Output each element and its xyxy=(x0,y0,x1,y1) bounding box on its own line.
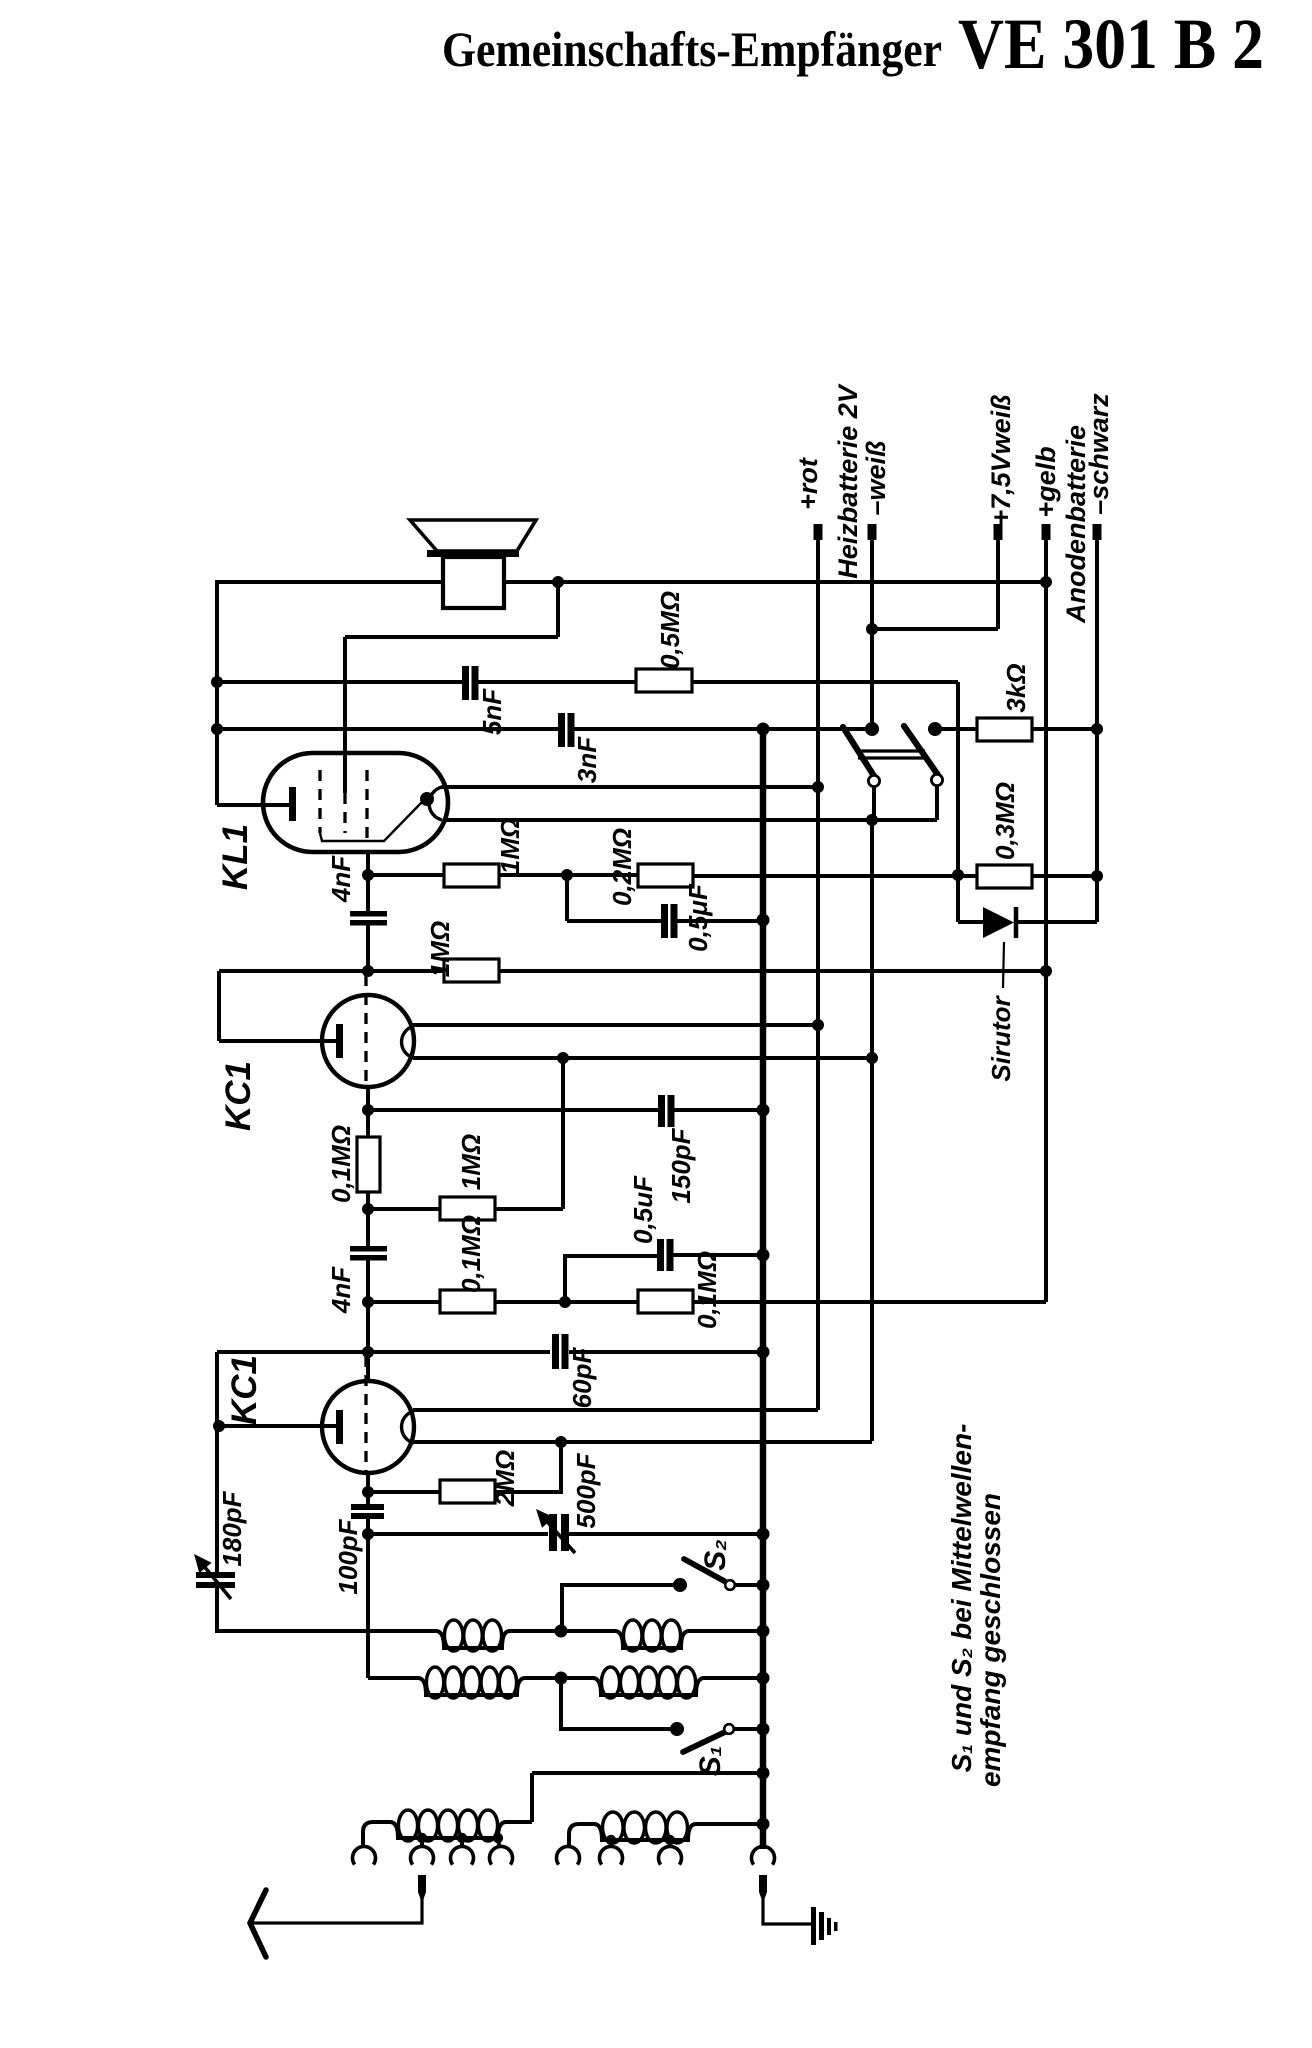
svg-text:–weiß: –weiß xyxy=(861,440,891,515)
wire left rail vertical xyxy=(215,580,219,805)
svg-text:S₁ und S₂ bei Mittelwellen-: S₁ und S₂ bei Mittelwellen- xyxy=(946,1424,977,1773)
wire 150pF to bus xyxy=(673,1108,763,1112)
svg-text:+rot: +rot xyxy=(793,457,823,510)
node 0,3M right junction xyxy=(1091,870,1103,882)
switch coupling bar1 xyxy=(858,749,925,752)
wire left rail lower xyxy=(215,1352,219,1572)
wire 0,1M row left xyxy=(368,1300,440,1304)
node ant2 coil tap1 xyxy=(606,1835,616,1845)
tube KL1 anode dot xyxy=(420,792,434,806)
svg-text:1MΩ: 1MΩ xyxy=(495,818,525,874)
wire 3nF rail left segment xyxy=(217,727,559,731)
wire R1M to 0,2M xyxy=(499,873,638,877)
svg-text:0,5μF: 0,5μF xyxy=(683,883,713,952)
wire KL1 filament to switch xyxy=(443,818,937,822)
wire R 0.5M to right bend xyxy=(692,680,958,684)
wire 0,5uF b to bus xyxy=(672,1253,763,1257)
svg-text:KC1: KC1 xyxy=(219,1061,258,1131)
resistor R 1MΩ a xyxy=(444,864,499,887)
node 500pF row junction xyxy=(362,1528,374,1540)
switch S1 contact xyxy=(670,1722,684,1736)
capacitor C 500pF plate1 xyxy=(549,1514,557,1551)
wire 100pF down xyxy=(366,1519,370,1678)
node 2M col junction xyxy=(555,1436,567,1448)
wire tap1 stub xyxy=(420,1840,424,1848)
speaker horn xyxy=(410,520,536,551)
antenna plug xyxy=(418,1875,426,1899)
resistor R 0,1MΩ b xyxy=(638,1290,693,1313)
wire 0,3M right xyxy=(1032,874,1097,878)
battery terminal plug -schwarz xyxy=(1093,524,1102,540)
switch pole1 contact xyxy=(865,722,879,736)
svg-text:100pF: 100pF xyxy=(333,1518,363,1594)
wire kc2 cathode lead xyxy=(219,1424,337,1428)
tube KC1b cathode bar xyxy=(336,1410,343,1444)
wire 2M right bend xyxy=(495,1442,561,1492)
wire ant2 tap1 stub xyxy=(609,1842,613,1848)
wire -weiss lower vertical xyxy=(870,820,874,1441)
node bus 150pF junction xyxy=(757,1104,770,1117)
switch S2 circle xyxy=(725,1580,735,1590)
svg-text:3nF: 3nF xyxy=(572,736,602,783)
wire diode up to 0,3M xyxy=(1095,876,1099,922)
svg-text:60pF: 60pF xyxy=(567,1347,597,1409)
switch contact circle1 xyxy=(868,775,879,786)
battery terminal plug +gelb xyxy=(1042,524,1051,540)
diode Sirutor cathode bar xyxy=(1014,907,1019,938)
node ant2 coil tap2 xyxy=(665,1835,675,1845)
coil L row2 left xyxy=(368,1678,561,1695)
wire 5nF to R 0.5M xyxy=(477,680,636,684)
node 0,5uF b col junction xyxy=(559,1296,571,1308)
capacitor C 0,5uF plate2 xyxy=(671,904,678,938)
svg-text:0,1MΩ: 0,1MΩ xyxy=(326,1125,356,1203)
ground symbol xyxy=(811,1907,816,1945)
node bus S2 junction xyxy=(757,1579,770,1592)
node +gelb row junction xyxy=(1040,965,1052,977)
svg-text:0,1MΩ: 0,1MΩ xyxy=(692,1251,722,1329)
svg-text:0,1MΩ: 0,1MΩ xyxy=(456,1215,486,1293)
node bus top junction xyxy=(757,723,770,736)
resistor R 1MΩ c xyxy=(440,1197,495,1220)
wire jog horizontal xyxy=(345,635,558,639)
tube KC1b anode cup xyxy=(402,1411,414,1443)
switch contact circle2 xyxy=(931,774,942,785)
svg-text:S₂: S₂ xyxy=(699,1539,732,1570)
svg-text:4nF: 4nF xyxy=(326,1266,356,1314)
wire tap2 stub xyxy=(460,1840,464,1848)
wire 0,5uF to bus xyxy=(677,919,766,923)
tube KC1b grid dashed xyxy=(364,1356,367,1472)
capacitor C 60pF plate2 xyxy=(562,1334,569,1369)
antenna symbol arrow xyxy=(250,1890,266,1957)
node left-rail 3nF junction xyxy=(211,723,223,735)
terminal arc ant3 xyxy=(490,1846,513,1864)
wire 0,2M to 0,3M rail xyxy=(693,874,977,878)
capacitor C 3nF plate2 xyxy=(568,713,575,747)
bus chassis vertical xyxy=(760,729,767,1849)
wire 3k to -schwarz xyxy=(1032,727,1097,731)
wire kc1a filament xyxy=(413,1056,872,1060)
switch coupling bar2 xyxy=(858,756,925,759)
capacitor C 5nF plate1 xyxy=(462,666,469,700)
wire kc1 cathode corner v xyxy=(217,971,221,1041)
capacitor C 0,5uF plate1 xyxy=(661,904,668,938)
node speaker-right junction xyxy=(552,576,564,588)
wire +rot vertical xyxy=(816,538,820,1410)
wire heiz jog xyxy=(872,627,998,631)
wire kc2 anode to +rot corner xyxy=(413,1408,818,1412)
capacitor C 5nF plate2 xyxy=(472,666,479,700)
coil L ant left xyxy=(373,1822,532,1838)
node bus 500pF junction xyxy=(757,1528,770,1541)
svg-text:150pF: 150pF xyxy=(666,1127,696,1203)
speaker frame bar xyxy=(427,550,519,557)
svg-text:0,5MΩ: 0,5MΩ xyxy=(655,591,685,669)
wire ant2 tap2 stub xyxy=(668,1842,672,1848)
wire S2 feed corner xyxy=(562,1585,680,1631)
node 2M row junction xyxy=(362,1486,374,1498)
node bus 60pF junction xyxy=(757,1346,770,1359)
node bus 0,5uF junction xyxy=(757,914,770,927)
node -weiss jog junction xyxy=(866,623,878,635)
svg-text:0,2MΩ: 0,2MΩ xyxy=(607,828,637,906)
wire 500pF to bus xyxy=(566,1532,761,1536)
svg-text:2MΩ: 2MΩ xyxy=(490,1450,520,1507)
terminal arc ant0 xyxy=(353,1846,376,1864)
wire diode right xyxy=(1018,920,1097,924)
capacitor C 4nF b plate2 xyxy=(350,1255,387,1261)
capacitor C 4nF b plate1 xyxy=(350,1246,387,1252)
node -weiss kc1a junction xyxy=(866,1052,878,1064)
tube KC1a envelope xyxy=(322,995,414,1087)
terminal arc ant6 xyxy=(659,1846,682,1864)
wire kc1 cathode lead xyxy=(219,1039,337,1043)
svg-text:VE 301 B 2: VE 301 B 2 xyxy=(958,4,1264,84)
tube KC1a anode cup xyxy=(402,1026,414,1058)
wire 180pF down corner xyxy=(215,1588,219,1633)
earth plug xyxy=(759,1875,767,1899)
wire tap3 stub xyxy=(498,1840,500,1848)
wire grid to R 1M xyxy=(368,873,444,877)
svg-text:1MΩ: 1MΩ xyxy=(456,1134,486,1190)
node ant coil tap2 xyxy=(457,1833,467,1843)
wire kc1a grid lead xyxy=(366,1087,370,1139)
svg-text:KL1: KL1 xyxy=(216,824,255,890)
wire 4nF to row junction xyxy=(366,925,370,971)
node 0,1M row junction xyxy=(362,1296,374,1308)
tube KL1 cathode bar xyxy=(289,787,296,821)
svg-text:KC1: KC1 xyxy=(225,1355,264,1425)
capacitor C 3nF plate1 xyxy=(558,713,565,747)
coil L row1 right xyxy=(561,1631,763,1648)
node ant coil tap1 xyxy=(417,1833,427,1843)
wire to 0,5uF xyxy=(567,919,661,923)
node 4nF bottom junction xyxy=(362,965,374,977)
tube KL1 anode cup xyxy=(429,787,442,820)
coil L ant right xyxy=(579,1824,763,1840)
wire S1 to bus xyxy=(734,1727,761,1731)
switch S1 circle xyxy=(724,1724,734,1734)
svg-text:1MΩ: 1MΩ xyxy=(425,921,455,977)
terminal arc ant4 xyxy=(556,1846,579,1864)
tube KL1 anode path xyxy=(320,800,424,841)
node +gelb top junction xyxy=(1040,576,1052,588)
tube KC1a grid dashed xyxy=(364,975,367,1086)
wire ant top corner down xyxy=(530,1773,534,1822)
wire coil2 feed corner xyxy=(368,1676,416,1680)
wire antenna lead xyxy=(252,1899,422,1923)
wire KL1 anode to +rot xyxy=(441,785,818,789)
wire jog down from speaker junction xyxy=(556,582,560,637)
wire 1M c right lead xyxy=(495,1207,563,1211)
tube KL1 grid dashed 1 xyxy=(318,770,321,833)
wire diode left bend xyxy=(958,920,983,924)
svg-text:Heizbatterie 2V: Heizbatterie 2V xyxy=(833,383,863,579)
node +rot anode junction xyxy=(812,781,824,793)
coil L row1 left xyxy=(217,1631,561,1648)
capacitor C 60pF plate1 xyxy=(552,1334,559,1369)
node bus ant junction xyxy=(757,1767,770,1780)
wire 5nF rail left segment xyxy=(217,680,463,684)
svg-text:0,3MΩ: 0,3MΩ xyxy=(990,782,1020,860)
resistor R 3kΩ xyxy=(977,718,1032,741)
node bus ant2 junction xyxy=(757,1818,770,1831)
capacitor C 100pF plate1 xyxy=(351,1504,384,1510)
svg-text:0,5uF: 0,5uF xyxy=(628,1175,658,1244)
resistor R 0,1MΩ a xyxy=(440,1290,495,1313)
resistor R 0,3MΩ xyxy=(977,865,1032,888)
resistor R 0,5MΩ xyxy=(636,669,692,692)
capacitor C 180pF plate1 xyxy=(196,1572,235,1578)
svg-text:+gelb: +gelb xyxy=(1031,446,1061,517)
node switch1 filament junction xyxy=(866,814,878,826)
wire 0,5uF b corner xyxy=(565,1256,658,1302)
wire +7,5V vertical xyxy=(996,538,1000,629)
wire +gelb vertical xyxy=(1044,538,1048,1302)
battery terminal plug -weiss xyxy=(868,524,877,540)
switch S2 contact xyxy=(673,1578,687,1592)
switch lever2 xyxy=(904,726,938,775)
resistor R 1MΩ b xyxy=(444,959,499,982)
node coil row1 center xyxy=(555,1625,568,1638)
wire 1M b row right xyxy=(368,969,444,973)
wire 1M c bend up xyxy=(561,1058,565,1209)
capacitor C 4nF plate2 xyxy=(350,920,387,926)
tube KL1 grid dashed 2 xyxy=(343,793,346,833)
svg-text:empfang geschlossen: empfang geschlossen xyxy=(975,1493,1006,1787)
wire 60pF to bus xyxy=(569,1350,763,1354)
terminal arc ant1 xyxy=(411,1846,434,1864)
switch lever1 xyxy=(843,727,874,776)
wire 0,1M to +gelb corner xyxy=(693,1300,1046,1304)
svg-text:Sirutor: Sirutor xyxy=(986,995,1016,1082)
capacitor C 500pF plate2 xyxy=(561,1514,569,1551)
wire KL1 grid column upper xyxy=(366,852,370,912)
wire 4nF b down xyxy=(366,1260,370,1381)
node bus S1 junction xyxy=(757,1723,770,1736)
node coil row2 center xyxy=(555,1672,568,1685)
tube KC1a cathode bar xyxy=(336,1024,343,1058)
wire speaker to +gelb xyxy=(504,580,1046,584)
node 150pF row junction xyxy=(362,1104,374,1116)
svg-text:500pF: 500pF xyxy=(571,1452,601,1528)
wire pole2 to 3k xyxy=(941,727,977,731)
wire S2 to bus xyxy=(735,1583,761,1587)
resistor R 2MΩ xyxy=(440,1480,495,1503)
wire 150pF row xyxy=(368,1108,658,1112)
wire -weiss vertical xyxy=(870,538,874,729)
wire switch1 down xyxy=(872,786,876,820)
capacitor C 100pF plate2 xyxy=(351,1513,384,1519)
tube KC1b envelope xyxy=(322,1381,414,1473)
wire 60pF row left xyxy=(217,1350,550,1354)
wire earth lead xyxy=(763,1899,813,1924)
wire corner left of 1M b xyxy=(219,969,368,973)
node bus coil1 junction xyxy=(757,1625,770,1638)
capacitor C 150pF plate1 xyxy=(658,1095,665,1127)
wire 0,5uF branch down xyxy=(565,875,569,921)
coil L row2 right xyxy=(561,1678,763,1695)
node 1M c row junction xyxy=(362,1203,374,1215)
tube KL1 envelope xyxy=(263,753,448,852)
resistor R 0,2MΩ xyxy=(638,864,693,887)
tube KL1 grid dashed 3 xyxy=(365,770,368,841)
wire kc1a anode to +rot xyxy=(413,1023,818,1027)
node 0,3M left junction xyxy=(952,869,964,881)
svg-text:180pF: 180pF xyxy=(217,1490,247,1566)
wire 0,1M mid xyxy=(495,1300,638,1304)
node 0,2M left junction xyxy=(561,869,573,881)
svg-text:Gemeinschafts-Empfänger: Gemeinschafts-Empfänger xyxy=(442,21,942,77)
battery terminal plug +rot xyxy=(814,524,823,540)
diode Sirutor leader line xyxy=(1003,942,1004,988)
wire ant top row xyxy=(532,1771,763,1775)
wire down to KL1 screen grid xyxy=(343,637,347,793)
wire 3nF to bus xyxy=(573,727,872,731)
node left-rail 5nF junction xyxy=(211,676,223,688)
svg-text:–schwarz: –schwarz xyxy=(1084,393,1114,515)
node KL1 grid junction xyxy=(362,869,374,881)
terminal arc ant5 xyxy=(600,1846,623,1864)
capacitor C 4nF plate1 xyxy=(350,911,387,917)
wire 1M b to +gelb xyxy=(499,969,1046,973)
node left rail kc2 junction xyxy=(213,1420,225,1432)
node 3k -schwarz junction xyxy=(1091,723,1103,735)
node +rot kc1a junction xyxy=(812,1019,824,1031)
battery terminal plug +7,5V xyxy=(994,524,1003,540)
wire top-left to speaker xyxy=(217,580,443,584)
wire kc2 grid lead xyxy=(366,1473,370,1504)
wire kc2 filament xyxy=(413,1440,872,1444)
node bus 0,5uF b junction xyxy=(757,1249,770,1262)
wire 1M c left lead xyxy=(368,1207,440,1211)
switch S2 lever xyxy=(684,1559,726,1582)
node 60pF row junction xyxy=(362,1346,374,1358)
node 0,5uF col junction xyxy=(557,1052,569,1064)
terminal arc ant2 xyxy=(451,1846,474,1864)
node bus coil2 junction xyxy=(757,1672,770,1685)
diode Sirutor triangle xyxy=(983,907,1014,938)
wire 2M left lead xyxy=(368,1490,440,1494)
svg-text:+7,5Vweiß: +7,5Vweiß xyxy=(986,394,1016,525)
switch pole2 contact xyxy=(928,722,942,736)
wire 0,1Mv to 1M row xyxy=(366,1192,370,1246)
speaker box xyxy=(443,557,504,608)
capacitor 180pF trimmer arrow xyxy=(205,1568,231,1599)
terminal arc earth xyxy=(751,1846,774,1864)
wire -schwarz vertical xyxy=(1095,538,1099,922)
svg-text:3kΩ: 3kΩ xyxy=(1001,663,1031,712)
wire switch2 down xyxy=(935,785,939,820)
node ant coil tap3 xyxy=(493,1833,503,1843)
wire 0,5M bend down xyxy=(956,682,960,922)
capacitor C 0,5uF b plate2 xyxy=(667,1239,674,1271)
capacitor C 150pF plate2 xyxy=(668,1095,675,1127)
wire KL1 cathode lead xyxy=(217,803,290,807)
switch S1 lever xyxy=(683,1732,725,1752)
capacitor C 180pF plate2 xyxy=(196,1582,235,1588)
capacitor C 0,5uF b plate1 xyxy=(657,1239,664,1271)
resistor R 0,1MΩ vertical xyxy=(357,1137,380,1192)
wire S1 feed corner xyxy=(561,1678,677,1729)
svg-text:4nF: 4nF xyxy=(326,855,356,903)
capacitor 500pF trimmer arrow xyxy=(548,1523,575,1554)
wire 500pF row left xyxy=(368,1532,548,1536)
